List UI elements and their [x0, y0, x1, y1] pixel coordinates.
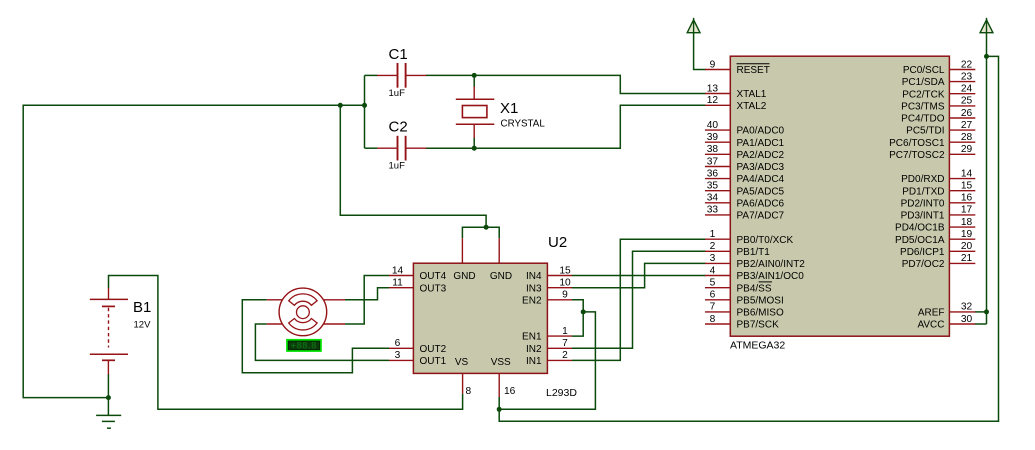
wire IN2 to PB1 [572, 251, 706, 348]
junction node gnd pins [484, 225, 489, 230]
pin GND (U2 top left lead) [453, 238, 475, 282]
svg-text:PA6/ADC6: PA6/ADC6 [737, 198, 785, 209]
svg-text:9: 9 [562, 290, 568, 301]
wire AREF/AVCC vertical [986, 56, 988, 324]
svg-text:C1: C1 [389, 46, 408, 63]
pin PC7/TOSC2 29 (ATMEGA32 right) [889, 144, 975, 161]
svg-text:14: 14 [961, 168, 973, 179]
svg-text:34: 34 [707, 193, 719, 204]
svg-text:PD5/OC1A: PD5/OC1A [895, 235, 945, 246]
junction node vss [497, 407, 502, 412]
ground [96, 415, 121, 428]
svg-text:GND: GND [453, 271, 475, 282]
svg-text:16: 16 [504, 386, 516, 397]
svg-text:4: 4 [710, 265, 716, 276]
pin XTAL2 12 (ATMEGA32 left) [705, 95, 767, 112]
svg-text:PC2/TCK: PC2/TCK [902, 89, 945, 100]
wire IN4 to PB3 (straight) [572, 275, 706, 277]
pin PB0/T0/XCK 1 (ATMEGA32 left) [705, 229, 794, 246]
svg-text:PA7/ADC7: PA7/ADC7 [737, 211, 785, 222]
svg-text:23: 23 [961, 71, 973, 82]
pin PB1/T1 2 (ATMEGA32 left) [705, 241, 770, 258]
wire battery minus lead [107, 374, 109, 398]
svg-text:19: 19 [961, 229, 973, 240]
svg-text:X1: X1 [500, 100, 518, 117]
pin PD1/TXD 15 (ATMEGA32 right) [902, 181, 975, 198]
svg-text:35: 35 [707, 181, 719, 192]
svg-text:7: 7 [710, 302, 716, 313]
junction node en [581, 309, 586, 314]
pin XTAL1 13 (ATMEGA32 left) [705, 83, 767, 100]
pin EN2 9 (U2 right) [522, 290, 572, 307]
svg-text:26: 26 [961, 108, 973, 119]
pin IN4 15 (U2 right) [526, 265, 572, 282]
display motor readout +88.8 [286, 339, 322, 352]
pin PA4/ADC4 36 (ATMEGA32 left) [705, 168, 785, 185]
pin PD6/ICP1 20 (ATMEGA32 right) [900, 241, 975, 258]
svg-text:8: 8 [466, 386, 472, 397]
driver IC U2 L293D body [413, 263, 547, 373]
wire OUT4 to motor lower-right lead [345, 276, 389, 325]
pin AREF 32 (ATMEGA32 right) [918, 302, 975, 319]
svg-text:PD3/INT1: PD3/INT1 [901, 211, 945, 222]
svg-text:39: 39 [707, 132, 719, 143]
wire OUT1 to motor lower-left lead [255, 324, 389, 360]
wire VSS to VCC bottom rail [499, 56, 998, 421]
svg-text:EN1: EN1 [522, 332, 542, 343]
capacitor C1 [377, 46, 426, 99]
svg-text:28: 28 [961, 132, 973, 143]
pin AVCC 30 (ATMEGA32 right) [917, 314, 975, 331]
svg-text:PA2/ADC2: PA2/ADC2 [737, 150, 785, 161]
pin PD2/INT0 16 (ATMEGA32 right) [901, 193, 976, 210]
svg-text:L293D: L293D [546, 387, 577, 399]
svg-text:PD6/ICP1: PD6/ICP1 [900, 247, 945, 258]
svg-text:PA5/ADC5: PA5/ADC5 [737, 186, 785, 197]
svg-text:21: 21 [961, 253, 973, 264]
pin PC3/TMS 25 (ATMEGA32 right) [901, 96, 975, 113]
pin PD3/INT1 17 (ATMEGA32 right) [901, 205, 976, 222]
svg-text:3: 3 [395, 350, 401, 361]
power VCC flag (right) [980, 18, 993, 33]
wire IN1 to PB0 [572, 239, 706, 360]
svg-text:+88.8: +88.8 [291, 341, 317, 352]
svg-text:PA1/ADC1: PA1/ADC1 [737, 138, 785, 149]
svg-text:OUT2: OUT2 [420, 344, 447, 355]
junction node caps [362, 103, 367, 108]
svg-text:OUT1: OUT1 [420, 356, 447, 367]
svg-text:6: 6 [395, 338, 401, 349]
svg-text:2: 2 [562, 350, 568, 361]
pin VSS 16 (U2 bottom) [491, 357, 516, 397]
wire OUT3 to motor upper-right lead [345, 288, 389, 300]
wire battery plus to VS pin 8 [109, 276, 463, 410]
svg-text:PC1/SDA: PC1/SDA [902, 77, 945, 88]
microcontroller IC ATMEGA32 body [730, 56, 949, 336]
pin PA7/ADC7 33 (ATMEGA32 left) [705, 205, 785, 222]
wire EN2 to EN1 tie [572, 300, 583, 336]
svg-text:8: 8 [710, 314, 716, 325]
svg-text:PC4/TDO: PC4/TDO [901, 114, 945, 125]
wire C1 to XTAL1 [426, 75, 706, 93]
svg-text:PC0/SCL: PC0/SCL [903, 65, 945, 76]
svg-text:AREF: AREF [918, 308, 945, 319]
pin OUT1 3 (U2 left) [389, 350, 447, 367]
pin PA6/ADC6 34 (ATMEGA32 left) [705, 193, 785, 210]
crystal X1 [456, 87, 546, 139]
svg-text:ATMEGA32: ATMEGA32 [730, 339, 785, 351]
junction node battery minus [106, 395, 111, 400]
pin PB5/MOSI 6 (ATMEGA32 left) [705, 290, 784, 307]
svg-text:24: 24 [961, 84, 973, 95]
svg-text:U2: U2 [548, 234, 567, 251]
pin GND (U2 top right lead) [490, 238, 512, 282]
svg-text:PA0/ADC0: PA0/ADC0 [737, 126, 785, 137]
wire right VCC arrow stem [986, 33, 988, 56]
svg-text:PB6/MISO: PB6/MISO [737, 308, 784, 319]
pin IN2 7 (U2 right) [526, 338, 572, 355]
svg-text:PB7/SCK: PB7/SCK [737, 320, 780, 331]
svg-text:6: 6 [710, 290, 716, 301]
svg-text:OUT3: OUT3 [420, 283, 447, 294]
svg-text:15: 15 [559, 265, 571, 276]
svg-text:C2: C2 [389, 119, 408, 136]
pin PA3/ADC3 37 (ATMEGA32 left) [705, 156, 785, 173]
wire AREF stub link [975, 311, 987, 313]
pin PA5/ADC5 35 (ATMEGA32 left) [705, 181, 785, 198]
battery B1 [90, 288, 152, 374]
svg-text:2: 2 [710, 241, 716, 252]
pin PC0/SCL 22 (ATMEGA32 right) [903, 59, 975, 76]
svg-text:38: 38 [707, 144, 719, 155]
wire C2 left link [365, 147, 378, 149]
svg-text:B1: B1 [133, 299, 151, 316]
svg-text:1uF: 1uF [389, 88, 406, 99]
svg-text:IN4: IN4 [526, 271, 542, 282]
svg-text:VS: VS [455, 357, 469, 368]
svg-text:PC5/TDI: PC5/TDI [906, 126, 944, 137]
svg-text:PB1/T1: PB1/T1 [737, 247, 771, 258]
svg-text:9: 9 [710, 59, 716, 70]
svg-text:IN2: IN2 [526, 344, 542, 355]
svg-text:XTAL1: XTAL1 [737, 89, 767, 100]
power VCC flag (left) [687, 18, 700, 33]
svg-text:30: 30 [961, 314, 973, 325]
pin RESET 9 (ATMEGA32 left) [705, 59, 770, 76]
svg-text:RESET: RESET [737, 65, 770, 76]
pin PA0/ADC0 40 (ATMEGA32 left) [705, 120, 785, 137]
svg-text:40: 40 [707, 120, 719, 131]
svg-text:17: 17 [961, 205, 973, 216]
wire EN1/EN2 branch to VSS node [499, 312, 595, 409]
svg-text:32: 32 [961, 302, 973, 313]
svg-text:PD4/OC1B: PD4/OC1B [895, 223, 945, 234]
svg-text:3: 3 [710, 253, 716, 264]
svg-text:14: 14 [392, 265, 404, 276]
svg-text:12V: 12V [134, 320, 152, 331]
pin PA1/ADC1 39 (ATMEGA32 left) [705, 132, 785, 149]
pin OUT3 11 (U2 left) [389, 278, 447, 295]
pin PB6/MISO 7 (ATMEGA32 left) [705, 302, 784, 319]
pin PC4/TDO 26 (ATMEGA32 right) [901, 108, 975, 125]
svg-text:PD7/OC2: PD7/OC2 [902, 259, 945, 270]
pin VS 8 (U2 bottom) [455, 357, 472, 397]
svg-text:PB4/SS: PB4/SS [737, 283, 772, 294]
svg-text:15: 15 [961, 181, 973, 192]
pin IN1 2 (U2 right) [526, 350, 572, 367]
svg-text:13: 13 [707, 83, 719, 94]
pin OUT2 6 (U2 left) [389, 338, 447, 355]
wire VCC arrow to RESET pin 9 [694, 33, 706, 70]
svg-text:12: 12 [707, 95, 719, 106]
svg-text:XTAL2: XTAL2 [737, 101, 767, 112]
wire ground feed to L293D GND pins [340, 105, 486, 227]
svg-text:29: 29 [961, 144, 973, 155]
svg-text:GND: GND [490, 271, 512, 282]
svg-text:PB5/MOSI: PB5/MOSI [737, 295, 784, 306]
svg-text:PD0/RXD: PD0/RXD [901, 174, 944, 185]
pin PC6/TOSC1 28 (ATMEGA32 right) [889, 132, 975, 149]
svg-text:PB2/AIN0/INT2: PB2/AIN0/INT2 [737, 259, 806, 270]
svg-text:PD1/TXD: PD1/TXD [902, 186, 944, 197]
pin PB2/AIN0/INT2 3 (ATMEGA32 left) [705, 253, 805, 270]
svg-text:1: 1 [562, 326, 568, 337]
svg-text:1uF: 1uF [389, 161, 406, 172]
junction node gnd-feed [338, 103, 343, 108]
svg-text:11: 11 [392, 278, 403, 289]
wire caps vertical bus [364, 75, 366, 148]
pin PC2/TCK 24 (ATMEGA32 right) [902, 84, 975, 101]
pin PD0/RXD 14 (ATMEGA32 right) [901, 168, 975, 185]
wire ground rail left: battery minus up to caps rail [23, 105, 364, 397]
pin PD5/OC1A 19 (ATMEGA32 right) [895, 229, 975, 246]
junction node xtal top [472, 73, 477, 78]
svg-text:25: 25 [961, 96, 973, 107]
junction node vcc [984, 54, 989, 59]
svg-text:7: 7 [562, 338, 568, 349]
svg-text:OUT4: OUT4 [420, 271, 447, 282]
wire OUT2 to motor upper-left lead [242, 300, 389, 373]
motor [267, 288, 345, 336]
svg-text:18: 18 [961, 217, 973, 228]
svg-text:IN3: IN3 [526, 283, 542, 294]
svg-text:PB0/T0/XCK: PB0/T0/XCK [737, 235, 794, 246]
wire crystal bottom stub [473, 138, 475, 149]
wire C1 left link [365, 74, 378, 76]
svg-text:10: 10 [559, 278, 571, 289]
pin PD7/OC2 21 (ATMEGA32 right) [902, 253, 976, 270]
junction node aref [984, 309, 989, 314]
pin PB3/AIN1/OC0 4 (ATMEGA32 left) [705, 265, 804, 282]
wire ground stem [107, 398, 109, 416]
svg-text:5: 5 [710, 278, 716, 289]
svg-text:PB3/AIN1/OC0: PB3/AIN1/OC0 [737, 271, 805, 282]
svg-text:CRYSTAL: CRYSTAL [501, 119, 546, 130]
pin PC5/TDI 27 (ATMEGA32 right) [906, 120, 975, 137]
svg-text:IN1: IN1 [526, 356, 542, 367]
pin EN1 1 (U2 right) [522, 326, 572, 343]
svg-text:EN2: EN2 [522, 295, 542, 306]
svg-text:PD2/INT0: PD2/INT0 [901, 198, 945, 209]
wire GND pins bracket [462, 227, 499, 238]
wire C2 to XTAL2 [426, 105, 706, 148]
svg-text:PC6/TOSC1: PC6/TOSC1 [889, 138, 945, 149]
pin PD4/OC1B 18 (ATMEGA32 right) [895, 217, 975, 234]
pin PC1/SDA 23 (ATMEGA32 right) [902, 71, 976, 88]
svg-text:PC3/TMS: PC3/TMS [901, 102, 945, 113]
svg-text:PA4/ADC4: PA4/ADC4 [737, 174, 785, 185]
svg-text:27: 27 [961, 120, 973, 131]
wire AVCC stub link [975, 323, 987, 325]
pin PA2/ADC2 38 (ATMEGA32 left) [705, 144, 785, 161]
svg-text:AVCC: AVCC [917, 320, 944, 331]
pin IN3 10 (U2 right) [526, 278, 572, 295]
svg-text:22: 22 [961, 59, 973, 70]
pin OUT4 14 (U2 left) [389, 265, 447, 282]
svg-text:16: 16 [961, 193, 973, 204]
svg-text:1: 1 [710, 229, 716, 240]
svg-text:20: 20 [961, 241, 973, 252]
junction node xtal bottom [472, 146, 477, 151]
wire crystal top stub [473, 75, 475, 87]
pin PB4/SS 5 (ATMEGA32 left) [705, 278, 772, 295]
capacitor C2 [377, 119, 426, 172]
svg-text:PA3/ADC3: PA3/ADC3 [737, 162, 785, 173]
svg-text:VSS: VSS [491, 357, 511, 368]
wire IN3 to PB2 [572, 263, 706, 287]
svg-text:33: 33 [707, 205, 719, 216]
svg-text:PC7/TOSC2: PC7/TOSC2 [889, 150, 945, 161]
svg-text:37: 37 [707, 156, 719, 167]
pin PB7/SCK 8 (ATMEGA32 left) [705, 314, 779, 331]
svg-text:36: 36 [707, 168, 719, 179]
